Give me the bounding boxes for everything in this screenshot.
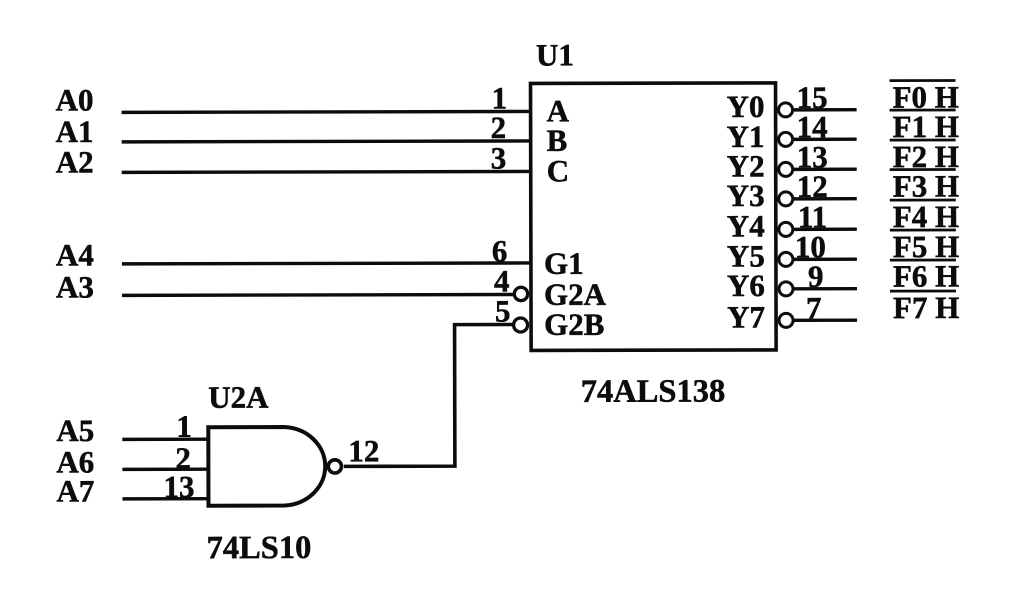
svg-text:Y7: Y7 (727, 299, 765, 334)
wire Y2 output (793, 168, 857, 172)
svg-text:F6 H: F6 H (893, 258, 959, 293)
pin 12 bubble (779, 192, 793, 206)
wire Y1 output (793, 138, 857, 142)
overline F0 (890, 79, 956, 82)
svg-text:A4: A4 (56, 237, 94, 272)
wire A7 to gate pin 13 (122, 497, 208, 501)
svg-text:G1: G1 (544, 246, 584, 281)
svg-text:3: 3 (491, 141, 507, 176)
overline F4 (890, 199, 956, 202)
svg-text:F7 H: F7 H (893, 290, 959, 325)
svg-text:G2B: G2B (544, 307, 604, 342)
nand gate U2A body (208, 427, 325, 506)
overline F5 (890, 229, 956, 232)
wire A5 to gate pin 1 (122, 437, 208, 441)
pin 7 bubble (779, 313, 793, 327)
wire Y3 output (793, 197, 857, 201)
overline F3 (890, 168, 956, 171)
wire Y0 output (793, 108, 857, 112)
pin 4 inversion bubble G2A (514, 287, 527, 300)
U2A output bubble (328, 460, 341, 473)
decoder U1 body (531, 83, 777, 351)
wire Y5 output (793, 258, 857, 262)
pin 5 inversion bubble G2B (514, 318, 528, 332)
svg-text:A0: A0 (56, 82, 94, 117)
wire A0 to pin 1 (122, 110, 531, 114)
svg-text:A2: A2 (56, 144, 94, 179)
svg-text:13: 13 (163, 469, 194, 504)
pin 15 bubble (779, 103, 793, 117)
overline F6 (890, 259, 956, 262)
svg-text:7: 7 (806, 290, 822, 325)
overline F7 (890, 290, 956, 293)
wire Y6 output (793, 287, 857, 291)
svg-text:A5: A5 (56, 413, 94, 448)
wire Y4 output (793, 228, 857, 232)
pin 13 bubble (779, 162, 793, 176)
svg-text:1: 1 (176, 409, 192, 444)
svg-text:12: 12 (348, 433, 379, 468)
svg-text:C: C (547, 153, 569, 188)
svg-text:U1: U1 (536, 37, 574, 72)
wire A4 to pin 6 (122, 261, 531, 265)
svg-text:A3: A3 (56, 269, 94, 304)
svg-text:9: 9 (808, 259, 824, 294)
svg-text:Y6: Y6 (727, 268, 765, 303)
svg-text:U2A: U2A (208, 380, 269, 415)
svg-text:74ALS138: 74ALS138 (581, 374, 726, 410)
pin 9 bubble (779, 282, 793, 296)
wire A6 to gate pin 2 (122, 467, 208, 471)
wire from U2A output to pin 5 G2B (344, 324, 513, 466)
wire A3 to pin 4 (122, 293, 513, 297)
svg-text:A7: A7 (56, 473, 94, 508)
svg-text:74LS10: 74LS10 (207, 530, 312, 566)
wire A2 to pin 3 (122, 170, 531, 174)
pin 10 bubble (779, 252, 793, 266)
overline F1 (890, 109, 956, 112)
pin 11 bubble (779, 222, 793, 236)
wire A1 to pin 2 (122, 139, 531, 143)
wire Y7 output (793, 319, 857, 323)
pin 14 bubble (779, 132, 793, 146)
overline F2 (890, 139, 956, 142)
